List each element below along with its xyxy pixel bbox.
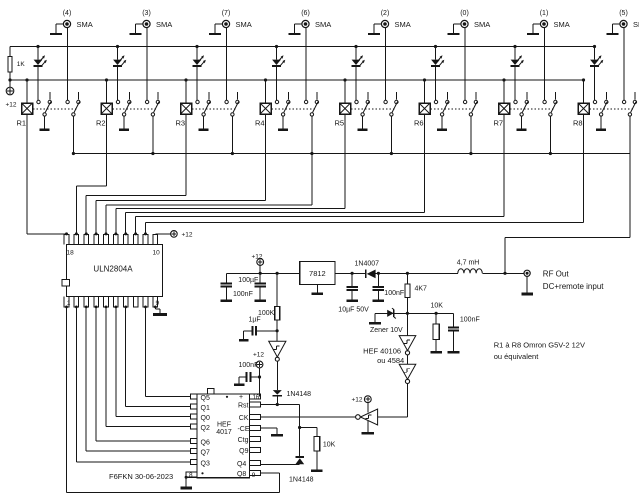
junction ULN bottom pin 5 bbox=[105, 306, 108, 309]
wire SMA (1) center to relay contact bbox=[543, 28, 545, 101]
relay R2 contact set A bbox=[116, 92, 131, 116]
pin ULN top stub 17 bbox=[74, 234, 79, 244]
svg-text:9: 9 bbox=[252, 472, 256, 479]
wire inverter1 to diode bbox=[276, 361, 278, 390]
svg-text:1: 1 bbox=[67, 300, 71, 307]
svg-text:4,7 mH: 4,7 mH bbox=[457, 260, 480, 267]
pin ULN bottom stub 2 bbox=[74, 297, 79, 307]
pin ULN bottom stub 3 bbox=[84, 297, 89, 307]
svg-text:DC+remote input: DC+remote input bbox=[543, 282, 604, 291]
connector RF Out bbox=[505, 270, 533, 295]
junction ULN bottom pin 4 bbox=[95, 306, 98, 309]
svg-text:Rst: Rst bbox=[238, 402, 249, 409]
ground gate4 bbox=[367, 421, 369, 432]
svg-text:Q9: Q9 bbox=[239, 448, 248, 455]
svg-text:10K: 10K bbox=[323, 442, 336, 449]
svg-text:R3: R3 bbox=[176, 119, 186, 128]
svg-text:SMA: SMA bbox=[315, 20, 331, 29]
capacitor 10uF 50V bbox=[346, 272, 358, 302]
svg-text:R7: R7 bbox=[494, 119, 504, 128]
wire relay R8 coil to ULN bbox=[145, 114, 583, 234]
svg-text:R4: R4 bbox=[255, 119, 265, 128]
pin ULN top stub 18 bbox=[64, 234, 69, 244]
svg-text:10µF 50V: 10µF 50V bbox=[338, 307, 369, 314]
junction bus2/left bbox=[8, 78, 11, 81]
linkage R1 (dotted) bbox=[33, 108, 77, 110]
linkage R4 (dotted) bbox=[272, 108, 316, 110]
pin ULN bottom stub 8 bbox=[133, 297, 138, 307]
resistor 100K bbox=[275, 273, 280, 332]
junction RF bus R3 bbox=[231, 152, 234, 155]
relay R6 coil bbox=[419, 78, 430, 114]
pin 4017 Q4 bbox=[250, 461, 261, 466]
junction ULN top pin 15 bbox=[95, 232, 98, 235]
wire ULN output to 4017 row y=396.5 bbox=[145, 307, 190, 397]
svg-text:HEF: HEF bbox=[217, 422, 231, 429]
pin 4017 Cty bbox=[250, 437, 261, 442]
svg-text:(5): (5) bbox=[619, 10, 628, 17]
pin 4017 Q6 bbox=[190, 439, 197, 444]
svg-text:SMA: SMA bbox=[236, 20, 252, 29]
wire relay R2 coil to ULN bbox=[76, 114, 106, 234]
junction ULN bottom pin 7 bbox=[124, 306, 127, 309]
pin 4017 CK bbox=[250, 415, 261, 420]
wire RF bus right drop bbox=[505, 154, 630, 274]
wire ULN output to 4017 row y=462 bbox=[76, 307, 190, 462]
capacitor 100nF 4017 bbox=[234, 372, 260, 386]
relay R4 coil bbox=[260, 78, 271, 114]
wire R8 contact B common to RF bus bbox=[629, 116, 631, 153]
pin 4017 Q5 bbox=[190, 394, 197, 399]
wire R7 contact B common to RF bus bbox=[549, 116, 551, 153]
ground R7 contact A common bbox=[521, 116, 523, 129]
svg-text:10K: 10K bbox=[431, 303, 444, 310]
wire R1 contact B common to RF bus bbox=[72, 116, 74, 153]
LED D1 bbox=[34, 45, 47, 100]
pin ULN top stub 10 bbox=[143, 234, 148, 244]
pin 4017 Q8 bbox=[250, 471, 261, 476]
relay R3 contact set A bbox=[196, 92, 211, 116]
ground R5 contact A common bbox=[362, 116, 364, 129]
pin ULN bottom stub 9 bbox=[143, 297, 148, 307]
connector SMA (2) bbox=[368, 20, 388, 35]
wire SMA (4) center to relay contact bbox=[66, 28, 68, 101]
linkage R8 (dotted) bbox=[590, 108, 634, 110]
wire ULN output to 4017 row y=426.5 bbox=[106, 307, 190, 427]
svg-text:Q4: Q4 bbox=[237, 461, 246, 468]
svg-text:16: 16 bbox=[253, 395, 260, 401]
junction ULN top pin 14 bbox=[104, 232, 107, 235]
wire relay R6 coil to ULN bbox=[126, 114, 425, 234]
svg-text:10: 10 bbox=[153, 250, 161, 257]
relay R2 contact set B bbox=[145, 92, 159, 116]
pin ULN top stub 16 bbox=[84, 234, 89, 244]
junction ULN bottom pin 9 bbox=[144, 306, 147, 309]
power +12 terminal (4017 VDD) bbox=[256, 361, 263, 368]
relay R5 contact set A bbox=[355, 92, 370, 116]
pin 4017 top stub bbox=[208, 389, 215, 394]
relay R4 contact set A bbox=[275, 92, 290, 116]
svg-text:R6: R6 bbox=[414, 119, 424, 128]
wire relay R1 coil to ULN bbox=[27, 114, 67, 234]
connector SMA (4) bbox=[50, 20, 70, 35]
resistor 4K7 bbox=[405, 272, 410, 314]
pin ULN top stub 10 bbox=[153, 234, 158, 244]
ground R8 contact A common bbox=[600, 116, 602, 129]
pin ULN bottom stub 6 bbox=[114, 297, 119, 307]
pin ULN top stub 15 bbox=[94, 234, 99, 244]
resistor 1K bbox=[8, 47, 12, 88]
pin 4017 -CE bbox=[250, 426, 261, 431]
junction ULN top pin 12 bbox=[124, 232, 127, 235]
wire SMA (7) center to relay contact bbox=[225, 28, 227, 101]
svg-text:Ctg: Ctg bbox=[238, 437, 249, 444]
connector SMA (5) bbox=[607, 20, 627, 35]
svg-text:(7): (7) bbox=[222, 10, 231, 17]
wire relay R7 coil to ULN bbox=[136, 114, 504, 234]
pin 4017 Rst bbox=[250, 402, 261, 407]
wire SMA (3) center to relay contact bbox=[146, 28, 148, 101]
svg-text:(1): (1) bbox=[540, 10, 549, 17]
svg-text:(0): (0) bbox=[460, 10, 469, 17]
ground R3 contact A common bbox=[203, 116, 205, 129]
relay R8 coil bbox=[578, 78, 589, 114]
wire SMA (5) center to relay contact bbox=[623, 28, 625, 101]
LED D3 bbox=[193, 45, 206, 100]
pin ULN top stub 11 bbox=[133, 234, 138, 244]
svg-text:-CE: -CE bbox=[237, 426, 249, 433]
relay R1 contact set B bbox=[66, 92, 80, 116]
capacitor 1uF bbox=[239, 326, 277, 341]
connector SMA (6) bbox=[289, 20, 309, 35]
svg-text:Q0: Q0 bbox=[201, 415, 210, 422]
pin 4017 16 bbox=[250, 394, 261, 399]
notch IC U1 bbox=[62, 280, 70, 287]
wire R5 contact B common to RF bus bbox=[390, 116, 392, 153]
relay R2 coil bbox=[101, 78, 112, 114]
label dot bottom bbox=[201, 472, 203, 474]
wire SMA (0) center to relay contact bbox=[464, 28, 466, 101]
wire 4K7 node row bbox=[375, 312, 454, 315]
relay R3 contact set B bbox=[225, 92, 239, 116]
svg-text:1N4007: 1N4007 bbox=[355, 260, 380, 267]
relay R1 coil bbox=[22, 78, 33, 114]
svg-text:R2: R2 bbox=[96, 119, 106, 128]
relay R3 coil bbox=[181, 78, 192, 114]
pin 4017 QI bbox=[190, 404, 197, 409]
LED D5 bbox=[352, 45, 365, 100]
svg-text:18: 18 bbox=[67, 250, 75, 257]
junction RF bus R6 bbox=[469, 152, 472, 155]
svg-text:1N4148: 1N4148 bbox=[289, 477, 314, 484]
relay R7 coil bbox=[499, 78, 510, 114]
svg-text:Q6: Q6 bbox=[201, 439, 210, 446]
resistor 10K (Rst) bbox=[311, 437, 323, 473]
svg-text:1µF: 1µF bbox=[249, 316, 261, 323]
wire R2 contact B common to RF bus bbox=[152, 116, 154, 153]
svg-text:1K: 1K bbox=[17, 61, 26, 68]
svg-text:(6): (6) bbox=[301, 10, 310, 17]
relay R6 contact set A bbox=[434, 92, 449, 116]
pin ULN bottom stub 9 bbox=[153, 297, 158, 307]
svg-text:Q8: Q8 bbox=[237, 471, 246, 478]
relay R5 coil bbox=[340, 78, 351, 114]
svg-text:R1: R1 bbox=[17, 119, 27, 128]
junction ULN top pin 16 bbox=[85, 232, 88, 235]
ground R4 contact A common bbox=[282, 116, 284, 129]
op inverter U3B bbox=[399, 313, 416, 355]
svg-text:8: 8 bbox=[189, 472, 193, 479]
svg-text:100nF: 100nF bbox=[384, 290, 404, 297]
wire Rst row bbox=[260, 403, 301, 456]
linkage R5 (dotted) bbox=[351, 108, 395, 110]
connector SMA (7) bbox=[209, 20, 229, 35]
label dot top bbox=[226, 396, 228, 398]
svg-text:(4): (4) bbox=[63, 10, 72, 17]
junction ULN top pin 18 bbox=[65, 232, 68, 235]
wire inverter3 to gate4 bbox=[378, 384, 408, 418]
pin ULN bottom stub 5 bbox=[104, 297, 109, 307]
LED D2 bbox=[113, 45, 126, 100]
linkage R2 (dotted) bbox=[113, 108, 157, 110]
svg-text:ou équivalent: ou équivalent bbox=[494, 352, 540, 361]
pin ULN top stub 13 bbox=[114, 234, 119, 244]
junction RF bus R4 bbox=[310, 152, 313, 155]
wire 100K node to inverter 1 bbox=[276, 331, 278, 342]
connector SMA (3) bbox=[130, 20, 150, 35]
relay R6 contact set B bbox=[463, 92, 477, 116]
LED D6 bbox=[431, 45, 444, 100]
svg-text:4K7: 4K7 bbox=[415, 286, 428, 293]
linkage R7 (dotted) bbox=[510, 108, 554, 110]
svg-text:1N4148: 1N4148 bbox=[287, 391, 312, 398]
svg-text:SMA: SMA bbox=[77, 20, 93, 29]
connector SMA (0) bbox=[448, 20, 468, 35]
wire RF bus bbox=[73, 153, 630, 155]
svg-text:+12: +12 bbox=[6, 102, 17, 109]
svg-text:Zener 10V: Zener 10V bbox=[370, 327, 403, 334]
svg-text:SMA: SMA bbox=[395, 20, 411, 29]
svg-text:SMA: SMA bbox=[554, 20, 570, 29]
wire ULN output to 4017 row y=416.5 bbox=[116, 307, 190, 417]
wire ULN output to 4017 row y=451 bbox=[86, 307, 190, 451]
svg-text:Q3: Q3 bbox=[201, 460, 210, 467]
power +12 terminal at ULN pin 10 bbox=[155, 231, 177, 238]
svg-text:+: + bbox=[239, 394, 243, 401]
relay R5 contact set B bbox=[384, 92, 398, 116]
inductor 4.7mH bbox=[458, 269, 482, 274]
junction RF bus R1 bbox=[72, 152, 75, 155]
svg-text:+12: +12 bbox=[253, 352, 264, 359]
svg-text:+12: +12 bbox=[182, 232, 193, 239]
pin ULN top stub 14 bbox=[104, 234, 109, 244]
ground R1 contact A common bbox=[44, 116, 46, 129]
svg-text:100nF: 100nF bbox=[233, 291, 253, 298]
junction RF bus R5 bbox=[390, 152, 393, 155]
pin 4017 pin8 VSS bbox=[186, 472, 197, 477]
wire +12 LED bus (top horizontal) bbox=[10, 46, 595, 48]
power +12 terminal left bbox=[6, 87, 14, 95]
pin 4017 Q9 bbox=[250, 448, 261, 453]
svg-text:RF Out: RF Out bbox=[543, 270, 570, 279]
op inverter U3C bbox=[399, 355, 416, 384]
junction ULN top pin 17 bbox=[75, 232, 78, 235]
wire -CE to ground bbox=[260, 428, 282, 436]
svg-text:R5: R5 bbox=[335, 119, 345, 128]
relay R8 contact set A bbox=[593, 92, 608, 116]
svg-text:Q7: Q7 bbox=[201, 449, 210, 456]
svg-text:ou 4584: ou 4584 bbox=[377, 356, 404, 365]
capacitor 100nF input bbox=[254, 273, 266, 302]
svg-text:SMA: SMA bbox=[156, 20, 172, 29]
relay R8 contact set B bbox=[622, 92, 636, 116]
pin 4017 Q0 bbox=[190, 414, 197, 419]
relay R7 contact set A bbox=[514, 92, 529, 116]
svg-text:100nF: 100nF bbox=[239, 362, 259, 369]
wire ULN pin1 long loop to 4017 Q8 bbox=[67, 307, 280, 492]
svg-text:9: 9 bbox=[156, 300, 160, 307]
svg-text:CK: CK bbox=[239, 415, 249, 422]
pin 4017 Q7 bbox=[190, 449, 197, 454]
pin ULN bottom stub 4 bbox=[94, 297, 99, 307]
relay R1 contact set A bbox=[37, 92, 52, 116]
svg-text:HEF 40106: HEF 40106 bbox=[363, 347, 401, 356]
power +12 terminal (7812 input) bbox=[257, 259, 264, 274]
svg-text:SMA: SMA bbox=[633, 20, 639, 29]
svg-text:Q2: Q2 bbox=[201, 425, 210, 432]
ground 7812 bbox=[316, 285, 318, 293]
junction ULN bottom pin 3 bbox=[85, 306, 88, 309]
junction ULN bottom pin 1 bbox=[65, 306, 68, 309]
ground 4017 pin8 bbox=[180, 476, 192, 490]
wire CK bbox=[260, 416, 355, 418]
wire SMA (6) center to relay contact bbox=[305, 28, 307, 101]
capacitor 100nF (zener) bbox=[448, 313, 460, 353]
junction ULN bottom pin 9 bbox=[154, 306, 157, 309]
junction ULN top pin 13 bbox=[114, 232, 117, 235]
junction ULN top pin 11 bbox=[134, 232, 137, 235]
linkage R6 (dotted) bbox=[431, 108, 475, 110]
svg-text:F6FKN 30-06-2023: F6FKN 30-06-2023 bbox=[109, 472, 173, 481]
capacitor 100uF input bbox=[221, 273, 233, 302]
op inverter U3A bbox=[269, 341, 286, 361]
ground ULN pin 9 bbox=[153, 307, 167, 316]
ground R2 contact A common bbox=[123, 116, 125, 129]
connector SMA (1) bbox=[527, 20, 547, 35]
svg-text:(2): (2) bbox=[381, 10, 390, 17]
junction ULN bottom pin 2 bbox=[75, 306, 78, 309]
wire R4 contact B common to RF bus bbox=[311, 116, 313, 153]
junction 100K tap bbox=[276, 272, 279, 275]
pin ULN bottom stub 1 bbox=[64, 297, 69, 307]
junction input rail bbox=[259, 272, 262, 275]
junction ULN bottom pin 6 bbox=[114, 306, 117, 309]
diode 1N4148 (Q4) bbox=[295, 456, 304, 464]
diode 1N4007 bbox=[335, 270, 458, 279]
svg-text:Q5: Q5 bbox=[201, 395, 210, 402]
junction RF node bbox=[503, 272, 506, 275]
wire relay R4 coil to ULN bbox=[96, 114, 265, 234]
op regulator 7812 bbox=[300, 262, 335, 285]
diode 1N4148 (osc) bbox=[273, 390, 283, 404]
pin ULN top stub 12 bbox=[123, 234, 128, 244]
LED D4 bbox=[272, 45, 285, 100]
ground R6 contact A common bbox=[441, 116, 443, 129]
svg-text:(3): (3) bbox=[142, 10, 151, 17]
diode Zener 10V bbox=[369, 308, 396, 324]
LED D7 bbox=[511, 45, 524, 100]
svg-text:R8: R8 bbox=[573, 119, 583, 128]
svg-text:4017: 4017 bbox=[216, 429, 232, 436]
wire +12 to pin16 bbox=[258, 368, 261, 397]
svg-text:ULN2804A: ULN2804A bbox=[93, 265, 133, 274]
pin ULN bottom stub 7 bbox=[123, 297, 128, 307]
wire SMA (2) center to relay contact bbox=[384, 28, 386, 101]
junction RF bus R7 bbox=[549, 152, 552, 155]
linkage R3 (dotted) bbox=[192, 108, 236, 110]
svg-text:+12: +12 bbox=[352, 397, 363, 404]
junction ULN top pin 10 bbox=[144, 232, 147, 235]
wire input rail bbox=[226, 272, 299, 274]
wire Rst to 10K bbox=[300, 428, 317, 437]
op IC U2 HEF4017 body bbox=[197, 394, 250, 478]
wire +12 coil bus (second horizontal) bbox=[10, 79, 584, 81]
wire Q4 to diode bbox=[260, 463, 299, 465]
wire relay R3 coil to ULN bbox=[86, 114, 186, 234]
LED D8 bbox=[590, 45, 603, 100]
relay R4 contact set B bbox=[304, 92, 318, 116]
power +12 terminal (gate4) bbox=[364, 396, 371, 413]
svg-text:Q1: Q1 bbox=[201, 405, 210, 412]
capacitor 100nF post-diode bbox=[373, 272, 385, 302]
junction RF bus R2 bbox=[151, 152, 154, 155]
svg-text:100nF: 100nF bbox=[460, 317, 480, 324]
pin 4017 Q3 bbox=[190, 460, 197, 465]
wire R6 contact B common to RF bus bbox=[470, 116, 472, 153]
svg-text:R1 à R8 Omron G5V-2 12V: R1 à R8 Omron G5V-2 12V bbox=[494, 341, 585, 350]
op IC U1 ULN2804A body bbox=[67, 245, 163, 297]
wire ULN output to 4017 row y=406.5 bbox=[126, 307, 190, 407]
op inverter U3D (clock driver) bbox=[356, 409, 378, 425]
wire bus tap R4 common drop bbox=[106, 154, 312, 234]
relay R7 contact set B bbox=[543, 92, 557, 116]
wire R3 contact B common to RF bus bbox=[231, 116, 233, 153]
wire ULN output to 4017 row y=441 bbox=[96, 307, 190, 441]
resistor 10K (zener) bbox=[430, 313, 442, 353]
svg-text:SMA: SMA bbox=[474, 20, 490, 29]
svg-text:+12: +12 bbox=[252, 254, 263, 261]
wire inductor to RF node bbox=[482, 272, 505, 274]
wire relay R5 coil to ULN bbox=[116, 114, 345, 234]
pin 4017 Q2 bbox=[190, 424, 197, 429]
svg-text:7812: 7812 bbox=[309, 269, 326, 278]
